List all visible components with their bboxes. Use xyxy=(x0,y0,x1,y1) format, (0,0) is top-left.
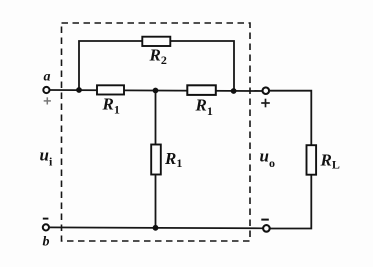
resistor R2 xyxy=(142,37,170,46)
polarity + input xyxy=(44,97,51,104)
node junction right riser xyxy=(231,88,237,94)
wire main horizontal a to + terminal xyxy=(49,90,262,91)
terminal b xyxy=(43,224,49,230)
wire - terminal to RL bottom xyxy=(270,174,311,229)
resistor R1 right series xyxy=(187,85,216,95)
svg-text:b: b xyxy=(43,235,50,250)
polarity + output xyxy=(261,99,270,108)
wire top branch (R2 feedback) xyxy=(79,41,234,91)
resistor R1 left series xyxy=(97,85,124,94)
wire middle shunt branch xyxy=(155,91,157,228)
svg-text:a: a xyxy=(44,70,51,85)
terminal a xyxy=(43,87,49,93)
node junction left riser xyxy=(76,87,82,93)
resistor R1 shunt (vertical) xyxy=(151,145,161,175)
terminal output - xyxy=(263,225,270,232)
wire + terminal to RL top xyxy=(270,91,311,146)
dashed network boundary box xyxy=(62,23,251,241)
terminal output + xyxy=(263,87,270,94)
wire bottom b to - terminal xyxy=(49,226,263,229)
polarity - input xyxy=(43,218,49,220)
resistor RL xyxy=(307,145,317,175)
polarity - output xyxy=(261,219,269,221)
node junction middle bottom xyxy=(153,225,159,231)
node junction middle top xyxy=(153,88,159,94)
